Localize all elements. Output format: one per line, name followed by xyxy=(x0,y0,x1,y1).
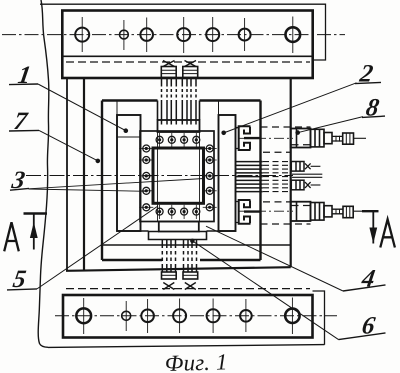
leader 8 xyxy=(298,117,364,133)
top stud cap left xyxy=(161,67,176,78)
plate pack lines xyxy=(236,162,263,192)
bottom bar centerline xyxy=(55,315,337,317)
lower pin fitting xyxy=(291,180,304,190)
leader 3a xyxy=(29,179,205,189)
bolts right column xyxy=(206,145,213,211)
lower pin X xyxy=(305,182,311,188)
bottom clamp screw xyxy=(291,202,354,221)
frame window right inner line xyxy=(290,78,292,267)
top punch flange xyxy=(158,120,200,132)
bottom bar hidden edge (dashed) xyxy=(66,288,310,290)
pin tie rods xyxy=(292,174,322,177)
sheet bottom edge xyxy=(48,345,325,348)
die cavity (thick square) xyxy=(153,148,204,203)
bottom stud X marks xyxy=(163,283,174,290)
main horizontal centerline xyxy=(26,175,293,177)
lower cross line xyxy=(102,244,291,246)
top seal connectors xyxy=(236,128,239,149)
top screw axis line xyxy=(354,137,367,139)
top bar hole 1 xyxy=(75,28,89,42)
bolts top row xyxy=(156,136,200,143)
section arrow right xyxy=(362,211,379,243)
right block base line xyxy=(207,230,236,232)
leader 3b xyxy=(29,189,147,191)
top bar hole 7 (corner, thick) xyxy=(286,27,301,42)
upper pin X xyxy=(305,163,311,169)
top bar hole 4 xyxy=(177,28,190,41)
left block top rib xyxy=(116,101,118,115)
bottom pad wide step xyxy=(149,232,207,240)
bottom bar hole 4 xyxy=(173,309,186,322)
lower pin stub xyxy=(311,184,321,186)
die bolt frame xyxy=(140,131,214,222)
bottom labyrinth seal xyxy=(239,200,262,224)
sheet break line (left wavy) xyxy=(38,0,49,347)
punch channel walls through die xyxy=(158,132,200,222)
leader 4 xyxy=(206,226,343,291)
leader 7 xyxy=(39,130,98,160)
svg-text:Фиг. 1: Фиг. 1 xyxy=(164,349,228,373)
top stud X marks xyxy=(163,61,175,67)
top bar hole 2 (small) xyxy=(120,30,129,39)
bolt centers xyxy=(145,138,212,213)
top bar centerline xyxy=(2,34,345,36)
frame window bottom edge xyxy=(66,267,291,271)
top bar hole 6 xyxy=(239,29,251,41)
bottom pad xyxy=(159,222,199,232)
top bar hole 5 xyxy=(206,28,219,41)
bottom bar hole 2 (small) xyxy=(122,311,131,320)
bottom bar hole 6 xyxy=(240,310,252,322)
top back plate (thin rectangle behind top bar) xyxy=(40,4,326,60)
section letter A left xyxy=(4,222,19,251)
upper pin stub xyxy=(311,165,321,167)
right holder block xyxy=(219,115,236,231)
bottom bar hole ticks xyxy=(84,298,293,335)
frame window left outer line xyxy=(66,78,68,271)
bottom bar hole 3 xyxy=(141,310,154,323)
bolt tick lines xyxy=(139,133,216,219)
section arrow left xyxy=(24,214,48,250)
bolts left column xyxy=(143,145,150,211)
hidden channel lines xyxy=(261,127,311,224)
left block inner ledge xyxy=(117,136,141,138)
leader 1 xyxy=(38,84,126,131)
bottom bar hole 5 xyxy=(207,309,220,322)
right block top rib xyxy=(218,101,220,115)
plate pack hidden continuations xyxy=(263,162,291,192)
bottom bar hole 1 (thick) xyxy=(76,308,91,323)
top studs xyxy=(162,78,197,125)
left holder block xyxy=(117,115,141,231)
bottom back plate (thin rectangle behind bottom bar) xyxy=(313,291,325,345)
bottom seal connectors xyxy=(236,202,239,223)
top bar hole ticks xyxy=(82,17,293,54)
bottom bar (lower traverse plate) xyxy=(63,295,313,338)
bottom clamp screw axis xyxy=(238,210,293,212)
section letter A right xyxy=(380,219,395,247)
bottom screw axis line xyxy=(353,210,371,212)
frame window left inner line xyxy=(83,78,85,271)
bottom bar hole 7 (corner, thick) xyxy=(285,309,299,323)
leader 2 xyxy=(224,83,357,133)
bottom stud cap left xyxy=(162,272,177,279)
leader 6 xyxy=(192,241,338,340)
main die plate xyxy=(102,101,261,261)
top stud cap right xyxy=(183,67,198,78)
top bar hidden edge (dashed) xyxy=(66,61,310,63)
top clamp screw axis xyxy=(238,137,293,139)
upper pin fitting xyxy=(291,162,304,172)
top bar hole 3 xyxy=(140,28,153,41)
bottom stud cap right xyxy=(183,272,198,279)
top labyrinth seal xyxy=(239,126,262,150)
left block base line xyxy=(117,230,149,232)
punch channel walls xyxy=(158,101,200,121)
top clamp screw xyxy=(291,129,354,148)
top bar inner line xyxy=(62,55,312,57)
top bar (upper traverse plate) xyxy=(62,11,312,79)
leader 5 xyxy=(37,206,158,289)
bolts bottom row xyxy=(156,208,200,215)
bottom studs xyxy=(162,240,196,272)
